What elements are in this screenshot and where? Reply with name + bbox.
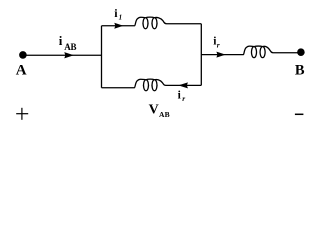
svg-text:AB: AB bbox=[64, 42, 76, 52]
svg-text:1: 1 bbox=[119, 14, 123, 22]
svg-text:V: V bbox=[149, 103, 159, 118]
svg-text:i: i bbox=[178, 89, 182, 101]
svg-text:i: i bbox=[59, 33, 63, 48]
svg-text:i: i bbox=[114, 6, 118, 20]
svg-text:A: A bbox=[16, 62, 27, 78]
svg-text:r: r bbox=[182, 94, 185, 103]
svg-text:B: B bbox=[295, 62, 305, 78]
svg-text:r: r bbox=[217, 40, 220, 49]
svg-text:AB: AB bbox=[159, 110, 170, 119]
